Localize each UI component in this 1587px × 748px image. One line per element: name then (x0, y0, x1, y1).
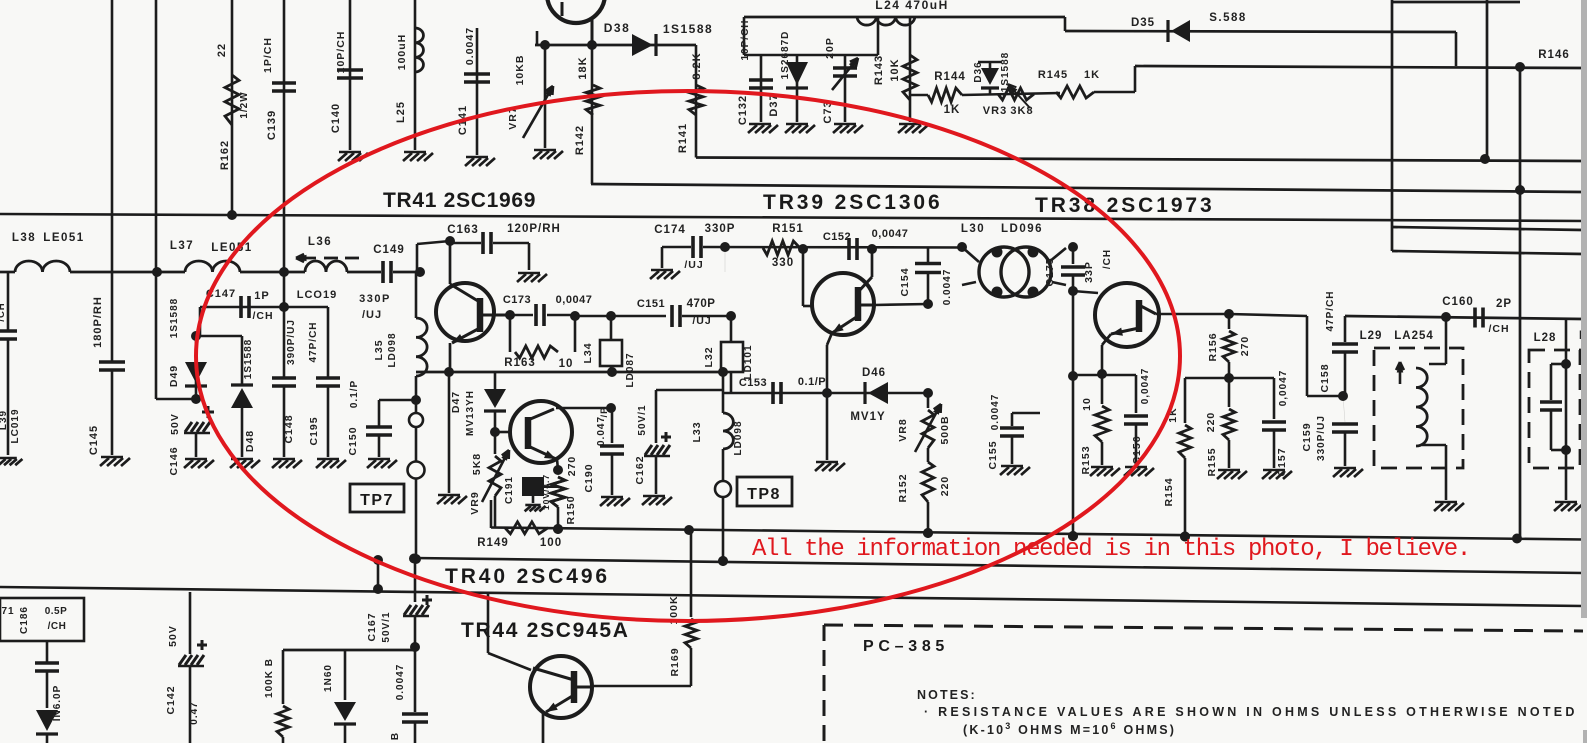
svg-text:C175: C175 (1044, 257, 1056, 286)
svg-text:/CH: /CH (1102, 249, 1113, 269)
svg-text:LD098: LD098 (387, 332, 398, 367)
svg-text:C174: C174 (654, 224, 686, 236)
svg-text:0.1/P: 0.1/P (798, 376, 826, 388)
svg-text:TP8: TP8 (747, 486, 781, 503)
svg-text:0.0047: 0.0047 (942, 269, 953, 306)
svg-text:0.047: 0.047 (596, 416, 607, 446)
svg-text:/CH: /CH (48, 621, 67, 632)
svg-text:R151: R151 (772, 223, 804, 235)
svg-text:C153: C153 (739, 377, 767, 389)
svg-text:R142: R142 (574, 125, 586, 155)
svg-text:1P: 1P (254, 290, 269, 302)
svg-text:TR39 2SC1306: TR39 2SC1306 (763, 191, 943, 214)
svg-text:C163: C163 (447, 224, 479, 236)
svg-text:L25: L25 (395, 101, 407, 123)
svg-text:270: 270 (1239, 336, 1251, 357)
svg-text:TR40 2SC496: TR40 2SC496 (445, 565, 610, 588)
svg-text:0.0047: 0.0047 (395, 664, 406, 701)
svg-text:D35: D35 (1131, 17, 1155, 29)
svg-text:TR44 2SC945A: TR44 2SC945A (461, 619, 630, 642)
svg-text:D46: D46 (862, 367, 886, 379)
svg-text:C149: C149 (373, 244, 405, 256)
svg-text:MV13YH: MV13YH (465, 390, 476, 436)
svg-text:0,0047: 0,0047 (872, 228, 909, 240)
svg-text:0.47: 0.47 (189, 701, 200, 724)
svg-text:C132: C132 (737, 95, 749, 125)
svg-text:/P: /P (599, 407, 610, 418)
svg-text:1/2W: 1/2W (239, 91, 250, 118)
svg-text:1S2687D: 1S2687D (780, 31, 791, 80)
svg-text:/CH: /CH (1488, 323, 1509, 335)
svg-text:33P: 33P (1083, 261, 1095, 283)
svg-text:0,0047: 0,0047 (1278, 370, 1289, 407)
svg-text:R169: R169 (669, 647, 681, 676)
svg-text:100: 100 (540, 537, 562, 549)
svg-text:L28: L28 (1534, 332, 1557, 344)
svg-text:LD101: LD101 (743, 344, 754, 379)
svg-text:LC019: LC019 (10, 408, 21, 443)
svg-text:330P: 330P (359, 293, 391, 305)
svg-text:C154: C154 (899, 267, 911, 296)
svg-text:C186: C186 (19, 606, 30, 634)
svg-text:C173: C173 (503, 294, 531, 306)
svg-text:D36: D36 (973, 61, 984, 82)
svg-text:LD098: LD098 (733, 420, 744, 455)
svg-text:C151: C151 (637, 298, 665, 310)
svg-text:C159: C159 (1301, 422, 1313, 451)
svg-text:R152: R152 (897, 473, 909, 502)
svg-text:PC–385: PC–385 (863, 638, 949, 655)
svg-text:L34: L34 (582, 342, 594, 363)
svg-text:L35: L35 (373, 339, 385, 360)
svg-text:VR9: VR9 (469, 491, 481, 514)
svg-text:D49: D49 (168, 365, 180, 387)
svg-text:1S1588: 1S1588 (243, 339, 254, 379)
svg-text:/UJ: /UJ (684, 259, 703, 271)
svg-text:All the information needed is: All the information needed is in this ph… (752, 536, 1470, 563)
svg-text:10P/CH: 10P/CH (335, 31, 347, 74)
svg-text:5K8: 5K8 (471, 453, 483, 475)
svg-text:1K: 1K (1084, 69, 1100, 81)
svg-text:IN6.0P: IN6.0P (52, 685, 63, 722)
svg-text:R144: R144 (934, 71, 966, 83)
svg-text:C195: C195 (308, 416, 320, 445)
svg-text:R145: R145 (1038, 69, 1068, 81)
svg-text:L24 470uH: L24 470uH (875, 0, 949, 12)
svg-text:· RESISTANCE VALUES ARE SHO: · RESISTANCE VALUES ARE SHOWN IN OHMS UN… (924, 705, 1578, 719)
svg-text:0.1/P: 0.1/P (349, 380, 360, 408)
svg-text:R156: R156 (1207, 332, 1219, 361)
svg-text:500B: 500B (939, 415, 951, 444)
svg-text:C160: C160 (1442, 296, 1474, 308)
svg-text:LD096: LD096 (1001, 223, 1043, 235)
svg-text:20P: 20P (824, 37, 836, 59)
svg-text:10KB: 10KB (514, 55, 526, 86)
svg-text:100uH: 100uH (396, 34, 408, 71)
svg-text:47P/CH: 47P/CH (1325, 290, 1336, 331)
svg-text:R163: R163 (504, 357, 536, 369)
svg-text:R162: R162 (219, 140, 231, 170)
svg-text:C157: C157 (1276, 447, 1288, 476)
svg-text:50V: 50V (169, 413, 181, 435)
svg-text:R154: R154 (1163, 477, 1175, 506)
svg-text:D47: D47 (450, 391, 462, 413)
svg-text:C139: C139 (266, 110, 278, 140)
svg-text:0.0047: 0.0047 (464, 27, 476, 65)
svg-text:C190: C190 (583, 463, 595, 492)
svg-text:C140: C140 (330, 103, 342, 133)
svg-text:LE051: LE051 (211, 242, 252, 254)
svg-text:1N60: 1N60 (323, 664, 334, 692)
svg-text:330P: 330P (705, 223, 736, 235)
svg-text:L39: L39 (0, 410, 9, 430)
svg-text:0,0047: 0,0047 (1140, 368, 1151, 405)
svg-text:1S1588: 1S1588 (169, 298, 180, 338)
svg-text:120P/RH: 120P/RH (507, 223, 561, 235)
svg-text:C142: C142 (165, 685, 177, 714)
svg-text:LA254: LA254 (1394, 330, 1434, 342)
svg-text:1P/CH: 1P/CH (262, 37, 274, 73)
svg-text:R141: R141 (677, 123, 689, 153)
svg-text:R153: R153 (1080, 445, 1092, 474)
svg-text:0.0047: 0.0047 (990, 394, 1001, 431)
svg-text:/CH: /CH (252, 310, 273, 322)
svg-text:C146: C146 (168, 446, 180, 475)
svg-text:470P: 470P (687, 298, 716, 310)
svg-text:100K B: 100K B (264, 658, 275, 698)
svg-text:/UJ: /UJ (692, 315, 711, 327)
svg-text:220: 220 (1205, 412, 1217, 433)
svg-text:C152: C152 (823, 231, 851, 243)
svg-text:TP7: TP7 (360, 492, 394, 509)
svg-text:L37: L37 (170, 240, 194, 252)
svg-text:C150: C150 (347, 426, 359, 455)
svg-text:/UJ: /UJ (362, 309, 382, 321)
svg-text:270: 270 (566, 456, 578, 477)
svg-text:L29: L29 (1360, 330, 1383, 342)
svg-text:50V/1: 50V/1 (381, 611, 392, 642)
svg-text:(K-103 OHMS M=106 OHMS): (K-103 OHMS M=106 OHMS) (963, 721, 1176, 737)
svg-text:C148: C148 (283, 414, 295, 443)
svg-text:390P/UJ: 390P/UJ (286, 319, 297, 365)
svg-text:8.2K: 8.2K (691, 52, 703, 79)
svg-text:L32: L32 (703, 346, 715, 367)
svg-text:D48: D48 (244, 430, 256, 452)
svg-text:18K: 18K (577, 56, 589, 79)
svg-text:22: 22 (216, 43, 228, 57)
svg-text:50V: 50V (167, 625, 179, 647)
svg-text:R155: R155 (1206, 447, 1218, 476)
svg-text:L36: L36 (308, 236, 332, 248)
svg-text:2P: 2P (1496, 298, 1512, 310)
svg-text:R143: R143 (873, 55, 885, 85)
svg-text:L30: L30 (961, 223, 985, 235)
svg-text:10: 10 (1081, 397, 1093, 411)
svg-text:C167: C167 (366, 612, 378, 641)
svg-text:LCO19: LCO19 (297, 289, 337, 301)
svg-text:C145: C145 (88, 425, 100, 455)
svg-text:C191: C191 (504, 476, 515, 504)
svg-text:L33: L33 (691, 421, 703, 442)
svg-text:71: 71 (1, 606, 14, 617)
svg-text:C155: C155 (987, 440, 999, 469)
svg-text:1S1588: 1S1588 (663, 22, 713, 36)
svg-text:TR41 2SC1969: TR41 2SC1969 (383, 189, 536, 212)
svg-text:1K: 1K (944, 104, 961, 116)
svg-text:/CH: /CH (0, 302, 7, 321)
svg-text:330: 330 (772, 257, 794, 269)
svg-text:R150: R150 (565, 495, 577, 524)
svg-text:S.588: S.588 (1209, 12, 1247, 24)
svg-text:180P/RH: 180P/RH (92, 296, 104, 348)
svg-text:VR3: VR3 (983, 105, 1007, 117)
svg-text:VR8: VR8 (897, 418, 909, 441)
svg-text:L38: L38 (12, 232, 36, 244)
svg-text:R146: R146 (1538, 49, 1570, 61)
svg-text:3K8: 3K8 (1010, 105, 1033, 117)
svg-text:47P/CH: 47P/CH (308, 321, 319, 362)
svg-text:TR38 2SC1973: TR38 2SC1973 (1035, 194, 1215, 217)
svg-text:50V/1: 50V/1 (637, 404, 648, 435)
svg-text:R149: R149 (477, 537, 509, 549)
svg-text:0.5P: 0.5P (45, 606, 68, 617)
svg-text:330P/UJ: 330P/UJ (1316, 415, 1327, 461)
svg-text:B: B (390, 732, 401, 740)
svg-text:10: 10 (559, 358, 574, 370)
svg-text:220: 220 (939, 476, 951, 497)
svg-text:10K: 10K (889, 58, 901, 81)
svg-text:NOTES:: NOTES: (917, 688, 977, 702)
svg-text:0,0047: 0,0047 (556, 294, 593, 306)
svg-text:LE051: LE051 (43, 232, 84, 244)
svg-text:D38: D38 (604, 21, 631, 35)
svg-text:LD087: LD087 (625, 352, 636, 387)
svg-text:C162: C162 (634, 455, 646, 484)
svg-text:MV1Y: MV1Y (850, 411, 885, 423)
svg-text:C158: C158 (1319, 363, 1331, 392)
svg-text:10V/4.7: 10V/4.7 (541, 474, 551, 510)
svg-text:10P/CH: 10P/CH (740, 19, 751, 60)
